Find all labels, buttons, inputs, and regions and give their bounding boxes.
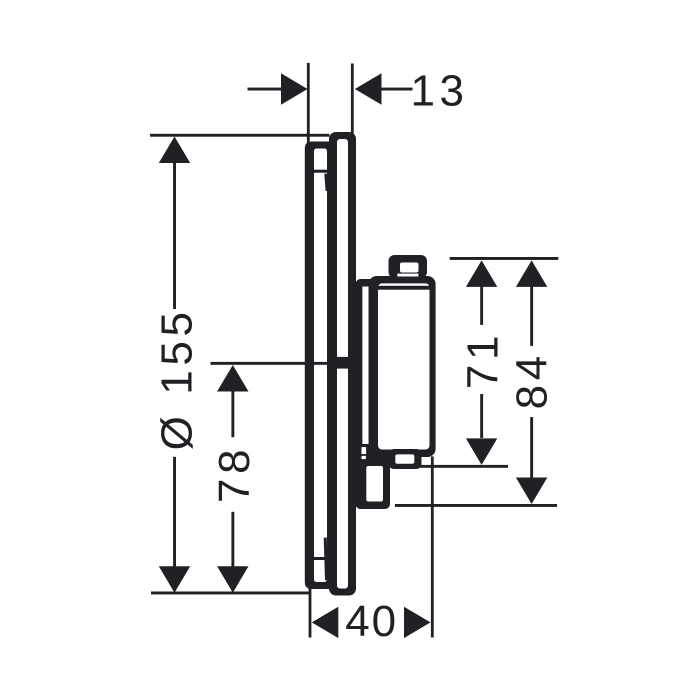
svg-text:Ø 155: Ø 155 xyxy=(153,307,202,450)
svg-text:84: 84 xyxy=(507,351,556,409)
dimension 71 down arrowhead xyxy=(466,438,497,465)
dimension 71 84 shared top extension line xyxy=(450,257,559,260)
dimension 40 left arrowhead xyxy=(312,607,339,638)
dimension 78 dimension line lower segment wire xyxy=(231,512,234,569)
handle sleeve outer body xyxy=(356,279,391,509)
dimension 13 extension line right xyxy=(351,64,354,136)
dimension 84 down arrowhead xyxy=(516,478,547,505)
handle body top seam xyxy=(376,286,430,290)
handle body inner face xyxy=(378,283,430,449)
dimension 78 centre axis extension line xyxy=(211,362,332,365)
dimension 40 extension line right xyxy=(431,456,434,637)
handle sleeve inner sliver xyxy=(362,287,368,445)
dimension 155 dimension line upper segment wire xyxy=(173,162,176,309)
dimension 155 dimension line lower segment wire xyxy=(173,457,176,569)
dimension 84 bottom extension line xyxy=(395,504,557,507)
escutcheon face plate outer body xyxy=(329,132,356,596)
dimension 13 right arrowhead xyxy=(355,73,382,104)
dimension 84 dimension line lower segment wire xyxy=(530,417,533,478)
dimension 40 right arrowhead xyxy=(404,607,431,638)
handle top button outer xyxy=(389,255,428,278)
handle bottom button slot xyxy=(395,454,414,463)
handle bottom button outer xyxy=(389,449,422,469)
dimension 78 dimension line upper segment wire xyxy=(231,391,234,438)
dimension 155 top extension line xyxy=(150,134,330,137)
handle stem inner face xyxy=(366,466,383,502)
dimension 155 bottom extension line xyxy=(151,592,311,595)
dimension 71 bottom extension line xyxy=(415,465,508,468)
dimension 13 left arrowhead xyxy=(281,73,308,104)
svg-text:13: 13 xyxy=(411,66,469,115)
svg-text:78: 78 xyxy=(210,445,259,503)
handle sleeve lower seam sliver xyxy=(362,447,367,454)
svg-text:40: 40 xyxy=(345,597,398,646)
dimension 155 up arrowhead xyxy=(159,137,190,164)
handle top button slot xyxy=(400,263,419,273)
dimension 71 dimension line upper segment wire xyxy=(480,286,483,325)
handle body outer xyxy=(369,276,436,457)
back plate upper bevel line xyxy=(324,174,328,192)
svg-text:71: 71 xyxy=(458,331,507,389)
dimension 84 up arrowhead xyxy=(516,260,547,287)
dimension 78 up arrowhead xyxy=(217,365,248,392)
dimension 71 dimension line lower segment wire xyxy=(480,394,483,438)
top button base gap sliver xyxy=(397,274,418,277)
dimension 13 right arrow tail wire xyxy=(381,88,413,91)
dimension 40 extension line left xyxy=(309,578,312,638)
valve spindle block xyxy=(331,357,362,369)
handle sleeve lower seam sliver 2 xyxy=(362,456,366,459)
dimension 78 down arrowhead xyxy=(217,566,248,593)
dimension 13 left arrow tail wire xyxy=(248,88,283,91)
back plate lower bevel line xyxy=(324,538,328,581)
escutcheon face plate inner face xyxy=(337,139,348,589)
dimension 13 extension line left xyxy=(307,63,310,149)
dimension 155 down arrowhead xyxy=(159,566,190,593)
dimension 84 dimension line upper segment wire xyxy=(530,286,533,346)
back mounting plate inner face xyxy=(314,149,327,583)
back mounting plate outer body xyxy=(305,142,331,590)
dimension 71 up arrowhead xyxy=(466,260,497,287)
back plate upper seam xyxy=(314,170,327,173)
back plate lower seam xyxy=(314,557,327,560)
